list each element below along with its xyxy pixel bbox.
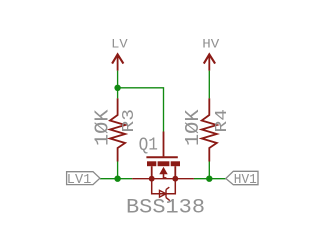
svg-text:LV1: LV1 (67, 172, 92, 188)
svg-text:1ØK: 1ØK (182, 109, 204, 146)
svg-text:R4: R4 (212, 109, 231, 133)
svg-text:HV1: HV1 (234, 172, 257, 188)
svg-text:1ØK: 1ØK (91, 109, 113, 146)
svg-text:BSS138: BSS138 (126, 197, 205, 220)
svg-text:R3: R3 (119, 109, 138, 133)
svg-text:Q1: Q1 (139, 135, 158, 155)
svg-text:LV: LV (111, 36, 128, 51)
svg-text:HV: HV (202, 36, 219, 51)
